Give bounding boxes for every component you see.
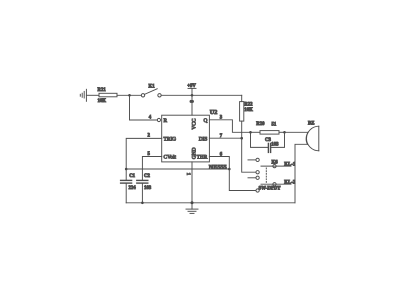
capacitor C1 (121, 180, 132, 183)
svg-text:VCC: VCC (192, 118, 198, 129)
wire R20 to right node (279, 131, 285, 133)
switch pole 2 wiper contact (273, 183, 276, 186)
switch pole 1 wiper contact (273, 164, 276, 167)
svg-text:TRIG: TRIG (164, 136, 177, 142)
wire C2 to bottom rail (141, 183, 143, 203)
svg-text:R20: R20 (256, 122, 265, 127)
wire node to R20 (251, 131, 261, 133)
wire C1 to bottom rail (125, 183, 127, 203)
svg-text:R22: R22 (244, 103, 253, 108)
node output left junction (249, 131, 252, 134)
switch pole 1 common wire (261, 165, 291, 167)
svg-text:SW-DPDT: SW-DPDT (259, 187, 282, 192)
wire CVolt pin 5 down to C2 (142, 157, 161, 181)
svg-text:K1: K1 (149, 84, 156, 89)
svg-text:KL-1: KL-1 (284, 162, 296, 167)
svg-text:CVolt: CVolt (164, 155, 177, 161)
wire THR pin 6 (209, 157, 229, 170)
svg-text:GND: GND (192, 147, 198, 159)
svg-text:DIS: DIS (199, 136, 208, 142)
svg-text:K6: K6 (272, 160, 279, 165)
switch SW-DPDT throw 1a stub (248, 159, 256, 161)
switch throw 2b contact (256, 189, 259, 192)
ground (earth, left of R21) (80, 89, 86, 101)
wire VCC pin 8 (191, 95, 193, 115)
op-amp U2 (NE555 IC body) (162, 115, 210, 162)
wire THR link down to switch throw 2b (229, 169, 256, 191)
node output right junction (283, 131, 286, 134)
node TRIG/C1 junction (125, 168, 128, 171)
resistor R21 (99, 93, 117, 97)
svg-text:10K: 10K (244, 108, 253, 113)
resistor R20 (260, 131, 279, 135)
svg-text:R21: R21 (98, 88, 107, 93)
wire DIS down to switch throw 1b (242, 138, 256, 172)
wire bottom rail (126, 202, 295, 204)
svg-text:BZ: BZ (308, 121, 314, 126)
node DIS/R22 junction (240, 137, 243, 140)
wire top rail down to R22 (241, 95, 243, 101)
wire switch to R22 corner (161, 94, 241, 96)
svg-text:R: R (164, 118, 168, 124)
svg-text:THR: THR (197, 155, 208, 161)
svg-text:C1: C1 (129, 174, 135, 179)
svg-text:51: 51 (272, 122, 277, 127)
wire right node to speaker BZ (285, 131, 309, 133)
node C2/rail junction (141, 202, 144, 205)
inversion bubble on R pin (157, 118, 160, 121)
power +9V (188, 88, 196, 95)
svg-text:Q: Q (203, 118, 207, 124)
wire R21 to switch K1 (117, 94, 141, 96)
wire THR-TRIG link (126, 168, 229, 170)
wire TRIG node down to C1 (125, 169, 127, 180)
svg-text:224: 224 (129, 186, 137, 191)
wire ground to R21 (86, 94, 99, 96)
svg-text:1: 1 (185, 173, 190, 176)
node junction after R21 (128, 94, 131, 97)
wire R22 to DIS node (241, 121, 243, 138)
switch throw 1a contact (256, 158, 259, 161)
switch throw 1b contact (256, 171, 259, 174)
node THR link junction (228, 168, 231, 171)
svg-text:10K: 10K (98, 99, 107, 104)
resistor R22 (240, 102, 244, 122)
wire Q pin 3 to output node (209, 120, 250, 133)
switch pole 2 common wire (261, 183, 291, 185)
svg-text:U2: U2 (210, 109, 218, 116)
switch linkage (dotted) (265, 168, 267, 183)
svg-text:KL-2: KL-2 (284, 180, 296, 185)
wire TRIG pin 2 (126, 138, 162, 169)
ground (earth symbol bottom) (186, 203, 198, 214)
wire junction down to reset pin 4 (130, 95, 158, 120)
svg-text:NE555: NE555 (209, 164, 227, 171)
svg-text:+9V: +9V (187, 84, 196, 89)
capacitor C2 (137, 180, 148, 183)
wire DIS pin 7 (209, 137, 241, 139)
node +9V junction (191, 94, 194, 97)
switch throw 2a stub (248, 177, 256, 179)
wire speaker bottom to rail (295, 144, 307, 203)
switch throw 2a contact (256, 176, 259, 179)
node GND/rail junction (191, 201, 194, 204)
svg-text:103: 103 (144, 186, 152, 191)
speaker BZ (306, 126, 319, 151)
svg-text:C2: C2 (144, 174, 150, 179)
capacitor C3 (parallel with R20) (251, 132, 285, 152)
switch K1 (141, 89, 161, 97)
wire GND pin 1 (191, 162, 193, 203)
svg-text:103: 103 (271, 142, 279, 147)
